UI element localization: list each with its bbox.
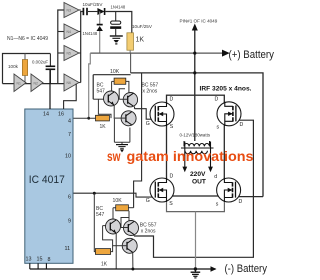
svg-text:10uF/25V: 10uF/25V xyxy=(83,2,104,7)
wire pin 16 xyxy=(64,84,77,109)
wire elevated rail gray xyxy=(90,52,222,54)
svg-text:x 2nos: x 2nos xyxy=(143,89,158,95)
svg-text:6: 6 xyxy=(68,195,71,201)
svg-text:D: D xyxy=(240,122,244,128)
svg-text:1N4148: 1N4148 xyxy=(111,5,126,10)
diode 1N4148 shunt xyxy=(99,12,101,25)
svg-text:N3: N3 xyxy=(67,9,71,13)
svg-text:D: D xyxy=(170,97,174,103)
wire emitters down to negative line xyxy=(133,235,134,270)
wire oscillator signal line xyxy=(3,83,65,85)
svg-text:15: 15 xyxy=(37,257,43,263)
svg-text:11: 11 xyxy=(65,246,71,252)
svg-text:S: S xyxy=(169,201,173,207)
capacitor 0.002uF xyxy=(49,54,51,67)
svg-text:14: 14 xyxy=(43,112,49,118)
wire pin1 arrow vertical xyxy=(194,27,196,141)
wire rail drop to bottom 10K xyxy=(134,73,142,208)
svg-text:547: 547 xyxy=(96,212,105,218)
svg-text:OUT: OUT xyxy=(192,179,206,186)
node dot pin4 wire junction xyxy=(87,117,90,120)
wire 10K to BC557A collector xyxy=(128,211,130,221)
svg-text:13: 13 xyxy=(26,257,32,263)
diode 1N4148 series xyxy=(97,8,104,15)
wire rail connector xyxy=(130,53,132,73)
wire BC547 emitter to junction xyxy=(113,105,115,119)
wire BC547 base feed xyxy=(93,98,105,100)
mosfet TR (mirrored) xyxy=(215,97,244,131)
svg-text:IC 4017: IC 4017 xyxy=(29,174,65,186)
wire mid rail xyxy=(93,74,130,76)
transistor BC557 top B xyxy=(121,111,136,126)
mosfet BL xyxy=(146,174,174,207)
ground below electrolytic xyxy=(110,35,123,37)
transformer core xyxy=(181,147,214,149)
svg-text:G: G xyxy=(146,121,150,127)
wire pin 14 xyxy=(49,69,51,109)
svg-text:1K: 1K xyxy=(101,262,108,268)
wire stubs buffers xyxy=(58,31,64,33)
svg-text:9: 9 xyxy=(68,219,71,225)
transformer primary winding xyxy=(184,143,210,146)
svg-text:7: 7 xyxy=(68,132,71,138)
svg-text:N4: N4 xyxy=(67,30,71,34)
wire gray jog down xyxy=(89,53,91,118)
inverter N4 xyxy=(64,24,79,39)
svg-text:D: D xyxy=(215,97,219,103)
transistor BC547 top xyxy=(104,91,119,106)
wire diode to 1K column xyxy=(106,12,132,33)
svg-text:1N4148: 1N4148 xyxy=(83,31,98,36)
capacitor 10uF/25V xyxy=(82,8,84,15)
transistor BC557 top A xyxy=(123,93,137,107)
svg-text:10K: 10K xyxy=(110,69,120,75)
svg-text:N1: N1 xyxy=(17,81,21,85)
inverter N6 xyxy=(64,74,79,91)
svg-text:gatam innovations: gatam innovations xyxy=(127,149,254,164)
svg-text:G: G xyxy=(146,198,150,204)
wire BC box left vertical xyxy=(92,75,94,100)
svg-text:10K: 10K xyxy=(113,198,123,204)
svg-text:N6: N6 xyxy=(67,81,71,85)
svg-text:N1—N6 = IC 4049: N1—N6 = IC 4049 xyxy=(7,36,48,42)
svg-text:547: 547 xyxy=(97,89,106,95)
transistor BC547 bottom xyxy=(106,219,121,234)
node dot pin 6 branch xyxy=(93,192,96,195)
transistor BC557 bottom B xyxy=(122,238,137,253)
wire pin4 to 1K xyxy=(74,117,96,119)
svg-text:16: 16 xyxy=(58,112,64,118)
svg-text:8: 8 xyxy=(48,257,51,263)
inverter N3 xyxy=(64,3,79,18)
IC 4017 body xyxy=(25,109,73,263)
svg-text:N5: N5 xyxy=(67,52,71,56)
wire emitters to ground rail xyxy=(114,119,129,142)
wire buffer output bus xyxy=(81,12,83,83)
transformer secondary winding xyxy=(185,151,207,154)
wire feed vertical xyxy=(94,193,95,251)
wire totem output to TL gate xyxy=(135,107,155,120)
battery positive arrow xyxy=(223,50,229,55)
resistor 1K vertical xyxy=(127,33,134,50)
svg-text:(+) Battery: (+) Battery xyxy=(229,49,275,61)
ground bottom xyxy=(194,267,197,270)
svg-text:N2: N2 xyxy=(34,81,38,85)
svg-text:D: D xyxy=(239,199,243,205)
svg-text:4: 4 xyxy=(68,119,71,125)
wire totem output loop to right gates xyxy=(134,120,253,257)
mosfet TL xyxy=(146,97,174,130)
svg-text:0-12V/180watts: 0-12V/180watts xyxy=(180,133,211,138)
resistor 1K bottom xyxy=(95,249,110,255)
ground top totem xyxy=(116,144,128,146)
wire source rail xyxy=(167,202,225,211)
svg-text:IRF 3205 x 4nos.: IRF 3205 x 4nos. xyxy=(200,86,252,93)
resistor 10K top xyxy=(112,80,115,82)
resistor 10K bottom xyxy=(113,208,116,219)
inverter N2 xyxy=(31,74,43,92)
resistor 100k xyxy=(24,54,26,84)
svg-text:D: D xyxy=(170,174,174,180)
svg-text:s: s xyxy=(217,125,220,131)
svg-text:PIN#1 OF IC 4049: PIN#1 OF IC 4049 xyxy=(180,19,218,24)
wire oscillator top rail xyxy=(3,54,51,84)
secondary output arrow left xyxy=(184,142,186,169)
svg-text:d: d xyxy=(214,174,217,180)
transformer frame box xyxy=(167,95,225,196)
capacitor electrolytic to ground xyxy=(115,12,117,22)
wire BC547 emitter bottom xyxy=(115,233,117,269)
wire base Z-link bottom xyxy=(103,226,113,252)
transistor BC557 bottom A xyxy=(124,221,139,236)
svg-text:220V: 220V xyxy=(190,171,206,178)
node dot battery line crossing xyxy=(193,52,196,55)
svg-text:100k: 100k xyxy=(8,64,19,69)
wire main top rail xyxy=(131,73,263,197)
secondary output arrow right xyxy=(210,142,212,169)
svg-text:10: 10 xyxy=(65,154,71,160)
svg-text:s: s xyxy=(216,201,219,207)
inverter N1 xyxy=(14,74,26,92)
mosfet BR (mirrored) xyxy=(214,174,242,208)
svg-text:1K: 1K xyxy=(136,37,145,44)
svg-text:1K: 1K xyxy=(100,124,107,130)
inverter N5 xyxy=(64,46,79,61)
wires pins 13 15 8 xyxy=(30,263,47,269)
wire buffer input bus xyxy=(58,10,64,84)
node dot top rail crossing xyxy=(193,71,196,74)
wire base Z-link to lower base junction xyxy=(98,99,111,118)
svg-text:S: S xyxy=(170,124,174,130)
resistor 1K top totem xyxy=(96,115,110,121)
svg-text:sw: sw xyxy=(107,149,121,164)
svg-text:10uF/25V: 10uF/25V xyxy=(132,24,153,29)
svg-text:0.002uF: 0.002uF xyxy=(32,60,48,65)
svg-text:(-) Battery: (-) Battery xyxy=(225,263,268,275)
svg-text:x 2nos: x 2nos xyxy=(141,229,156,235)
wire pin 6 xyxy=(74,193,155,197)
